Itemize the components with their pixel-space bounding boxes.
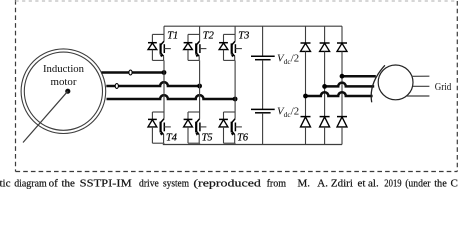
svg-text:system: system: [163, 177, 189, 189]
svg-text:Zdiri: Zdiri: [331, 177, 353, 189]
svg-text:SSTPI-IM: SSTPI-IM: [80, 177, 132, 189]
svg-text:(under: (under: [405, 177, 431, 189]
svg-text:T4: T4: [166, 132, 177, 143]
svg-text:of: of: [49, 177, 59, 189]
svg-text:M.: M.: [298, 177, 311, 189]
svg-text:Induction: Induction: [43, 64, 85, 75]
svg-text:(reproduced: (reproduced: [193, 177, 261, 189]
svg-text:from: from: [267, 177, 287, 189]
svg-text:T2: T2: [203, 31, 214, 42]
svg-text:motor: motor: [51, 77, 77, 88]
svg-text:T3: T3: [238, 31, 249, 42]
svg-text:T5: T5: [202, 132, 213, 143]
svg-text:diagram: diagram: [14, 177, 47, 189]
svg-text:2019: 2019: [384, 177, 402, 189]
svg-text:the: the: [434, 177, 447, 189]
svg-text:et: et: [358, 177, 366, 189]
svg-text:T6: T6: [237, 132, 249, 143]
svg-text:drive: drive: [139, 177, 159, 189]
svg-text:tic: tic: [0, 177, 11, 189]
svg-text:C: C: [451, 177, 458, 189]
svg-text:T1: T1: [167, 31, 178, 42]
svg-text:the: the: [62, 177, 76, 189]
svg-text:al.: al.: [368, 177, 379, 189]
svg-text:A.: A.: [317, 177, 328, 189]
svg-text:Grid: Grid: [435, 81, 452, 93]
